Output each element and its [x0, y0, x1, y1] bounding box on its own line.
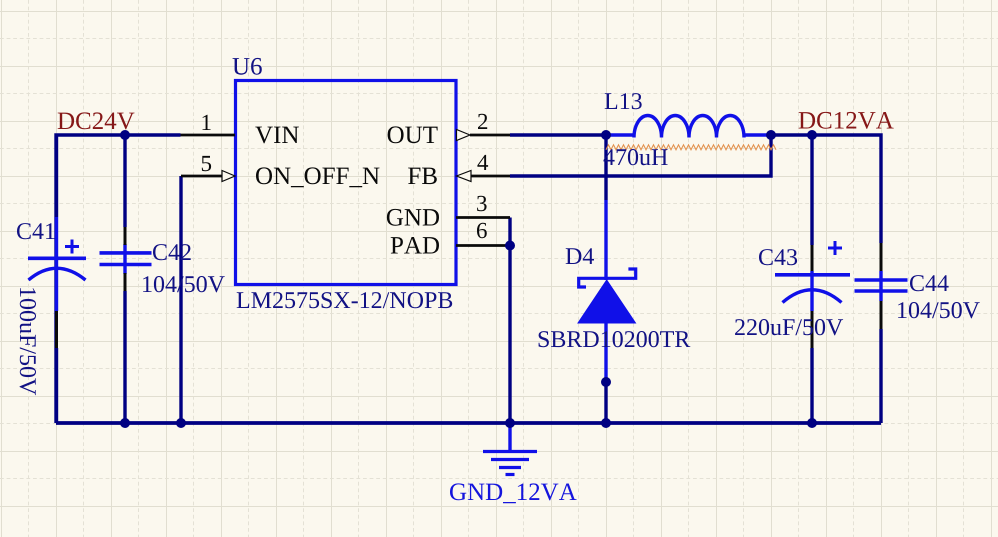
- junction dot 8: [176, 418, 186, 428]
- junction dot 2: [601, 130, 611, 140]
- diode D4 cathode bar: [579, 269, 636, 287]
- capacitor C41 pin segment lower: [55, 311, 58, 348]
- value 104/50V C44: [898, 302, 980, 318]
- junction dot 3: [766, 130, 776, 140]
- pin number 6: [477, 223, 487, 238]
- wire GND/PAD vertical: [508, 218, 511, 424]
- diode D4 triangle: [578, 280, 636, 323]
- inductor L13 humps: [634, 116, 744, 138]
- capacitor C43 plus: [828, 241, 842, 255]
- value 470uH: [604, 149, 668, 165]
- pin name FB: [408, 168, 437, 185]
- designator U6: [233, 58, 262, 75]
- capacitor C44 lead: [879, 271, 882, 301]
- designator C44: [910, 275, 949, 291]
- inductor L13 leads: [606, 133, 771, 136]
- designator C43: [759, 249, 797, 265]
- capacitor C41 pin segment upper: [55, 206, 58, 217]
- pin 5 arrow: [222, 171, 235, 182]
- pin 1 VIN stub: [181, 134, 236, 137]
- ground GND_12VA symbol: [508, 423, 511, 451]
- value LM2575SX-12/NOPB: [237, 292, 453, 308]
- wire OUT to inductor: [510, 133, 606, 136]
- pin name OUT: [388, 126, 438, 143]
- error squiggle under L13: [606, 145, 776, 150]
- pin 3 GND stub: [456, 216, 510, 219]
- wire DC12VA + C44 top lead: [771, 135, 881, 243]
- junction dot 7: [120, 418, 130, 428]
- wire C42 branch upper: [123, 135, 126, 227]
- capacitor C41 upper lead: [55, 135, 58, 217]
- capacitor C43 curved plate: [783, 290, 842, 303]
- pin name PAD: [391, 237, 439, 254]
- junction dot 11: [807, 418, 817, 428]
- capacitor C42 pin segment upper: [124, 227, 127, 245]
- pin 5 ON_OFF_N stub: [181, 175, 222, 178]
- junction dot 5: [505, 241, 515, 251]
- capacitor C43 pin segment lower: [811, 311, 814, 348]
- pin 6 PAD stub: [456, 244, 510, 247]
- designator C41: [17, 223, 55, 239]
- pin 2 OUT stub: [470, 134, 510, 137]
- pin number 1: [203, 115, 211, 130]
- junction dot 10: [601, 418, 611, 428]
- capacitor C43 top plate: [775, 273, 850, 277]
- capacitor C44 pin segment lower: [880, 301, 883, 329]
- capacitor C41 curved plate: [29, 268, 86, 280]
- capacitor C41 plus: [65, 240, 79, 254]
- wire diode branch top: [604, 135, 607, 200]
- capacitor C43 lead: [810, 271, 813, 311]
- value 100uF/50V: [20, 288, 36, 395]
- net label DC24V: [58, 112, 135, 129]
- diode D4 bottom pin: [604, 323, 607, 382]
- capacitor C43 pin segment upper: [811, 245, 814, 271]
- wire C42 branch lower: [123, 291, 126, 423]
- IC U6 regulator body: [236, 81, 457, 285]
- capacitor C41 top plate: [28, 256, 86, 260]
- diode D4 top pin: [604, 200, 607, 280]
- capacitor C44 pin segment upper: [880, 243, 883, 271]
- capacitor C44 plates: [855, 278, 908, 282]
- pin number 2: [478, 114, 487, 129]
- pin number 5: [202, 156, 211, 171]
- pin 4 FB stub: [471, 175, 510, 178]
- designator C42: [153, 244, 191, 260]
- capacitor C42 pin segment lower: [124, 273, 127, 291]
- pin number 3: [477, 196, 487, 211]
- pin name VIN: [255, 127, 299, 144]
- capacitor C41 lower lead: [55, 348, 58, 423]
- wire C43 top lead: [810, 135, 813, 245]
- wire C43 bottom lead: [810, 348, 813, 423]
- wire FB return: [510, 135, 771, 176]
- capacitor C42 plates: [100, 251, 152, 255]
- pin 4 arrow: [457, 171, 472, 182]
- wire ON_OFF_N vertical: [179, 176, 182, 423]
- pin 2 arrow: [457, 130, 471, 141]
- junction dot 1: [120, 130, 130, 140]
- net label DC12VA: [799, 112, 894, 129]
- junction dot 6: [601, 377, 611, 387]
- grid: [1, 0, 3, 537]
- junction dot 9: [505, 418, 515, 428]
- wire bottom ground rail: [56, 421, 881, 425]
- designator D4: [566, 248, 594, 264]
- pin name ON_OFF_N: [256, 167, 380, 187]
- value 104/50V C42: [143, 276, 225, 292]
- designator L13: [605, 93, 642, 109]
- power port text GND_12VA: [450, 483, 577, 503]
- wire diode branch bottom: [604, 382, 607, 423]
- value 220uF/50V: [735, 319, 843, 335]
- capacitor C42 lead: [123, 244, 126, 274]
- wire DC24V horizontal + left vertical: [56, 135, 181, 423]
- pin name GND: [387, 209, 439, 226]
- wire C44 bottom lead: [879, 329, 882, 423]
- value SBRD10200TR: [539, 331, 691, 347]
- pin number 4: [477, 155, 488, 170]
- junction dot 4: [807, 130, 817, 140]
